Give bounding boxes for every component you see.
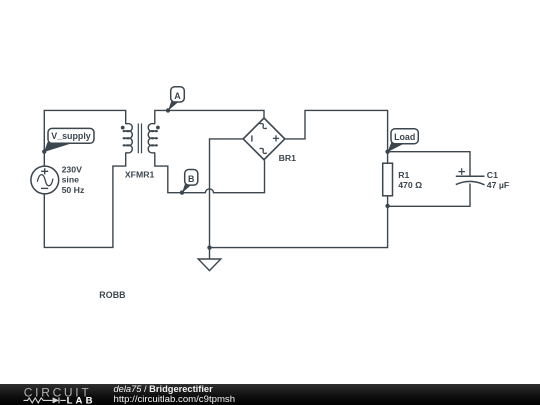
- wire load to capacitor top: [388, 152, 470, 177]
- bridge rectifier BR1: [243, 118, 296, 163]
- svg-text:BR1: BR1: [279, 153, 297, 163]
- wire secondary top to node A and bridge top: [155, 110, 264, 124]
- label R1 470 ohm: [398, 170, 422, 190]
- flag V_supply: [44, 128, 94, 152]
- footer bar: [0, 384, 540, 405]
- label C1 47uF: [487, 170, 509, 190]
- wire bridge plus to load: [285, 110, 388, 151]
- polarity dot primary: [121, 126, 125, 130]
- svg-text:V_supply: V_supply: [51, 131, 91, 141]
- flag A: [168, 87, 184, 111]
- resistor R1: [383, 163, 393, 196]
- junction node A dot: [166, 108, 170, 112]
- flag B: [182, 170, 198, 193]
- logo zigzag and diode: [24, 397, 66, 403]
- wire R1 leads: [387, 152, 389, 207]
- primary winding: [123, 124, 132, 153]
- svg-text:Load: Load: [394, 132, 415, 142]
- plus mark capacitor: [458, 168, 465, 175]
- svg-text:470 Ω: 470 Ω: [398, 180, 422, 190]
- transformer XFMR1: [123, 124, 157, 154]
- flag Load: [388, 129, 419, 152]
- junction node B dot: [180, 190, 184, 194]
- junction R1 bottom dot: [385, 204, 389, 208]
- wire primary bottom: [44, 153, 125, 248]
- ground: [198, 259, 221, 271]
- svg-text:50 Hz: 50 Hz: [62, 185, 85, 195]
- wire bridge minus to ground rail: [210, 139, 244, 248]
- junction node V_supply dot: [42, 149, 46, 153]
- svg-text:B: B: [188, 174, 194, 184]
- svg-text:LAB: LAB: [67, 396, 96, 405]
- junction ground dot: [207, 245, 211, 249]
- svg-text:sine: sine: [62, 175, 80, 185]
- ac mark bottom: [259, 147, 267, 155]
- svg-text:C1: C1: [487, 170, 498, 180]
- svg-text:230V: 230V: [62, 164, 82, 174]
- wire ground rail bottom: [210, 206, 388, 248]
- svg-text:XFMR1: XFMR1: [125, 170, 155, 180]
- core lines: [138, 124, 141, 154]
- svg-text:dela75 / Bridgerectifier: dela75 / Bridgerectifier: [114, 384, 214, 394]
- wire primary top: [44, 110, 125, 166]
- svg-text:A: A: [174, 91, 181, 101]
- secondary winding: [148, 124, 157, 153]
- voltage source V_supply: [31, 166, 59, 194]
- svg-text:47 µF: 47 µF: [487, 180, 509, 190]
- value label 230V sine 50 Hz: [62, 164, 85, 195]
- svg-text:ROBB: ROBB: [99, 290, 125, 300]
- wire secondary bottom to node B with hop: [155, 153, 265, 193]
- wire capacitor bottom to R1 bottom: [388, 184, 470, 207]
- svg-text:http://circuitlab.com/c9tpmsh: http://circuitlab.com/c9tpmsh: [114, 394, 236, 405]
- plus mark right: [273, 135, 279, 141]
- capacitor C1: [456, 176, 485, 185]
- ac mark top: [259, 122, 267, 130]
- svg-text:R1: R1: [398, 170, 409, 180]
- minus mark left: [251, 135, 253, 141]
- polarity dot secondary: [156, 126, 160, 130]
- junction node Load dot: [385, 150, 389, 154]
- wire ground stub: [209, 248, 211, 259]
